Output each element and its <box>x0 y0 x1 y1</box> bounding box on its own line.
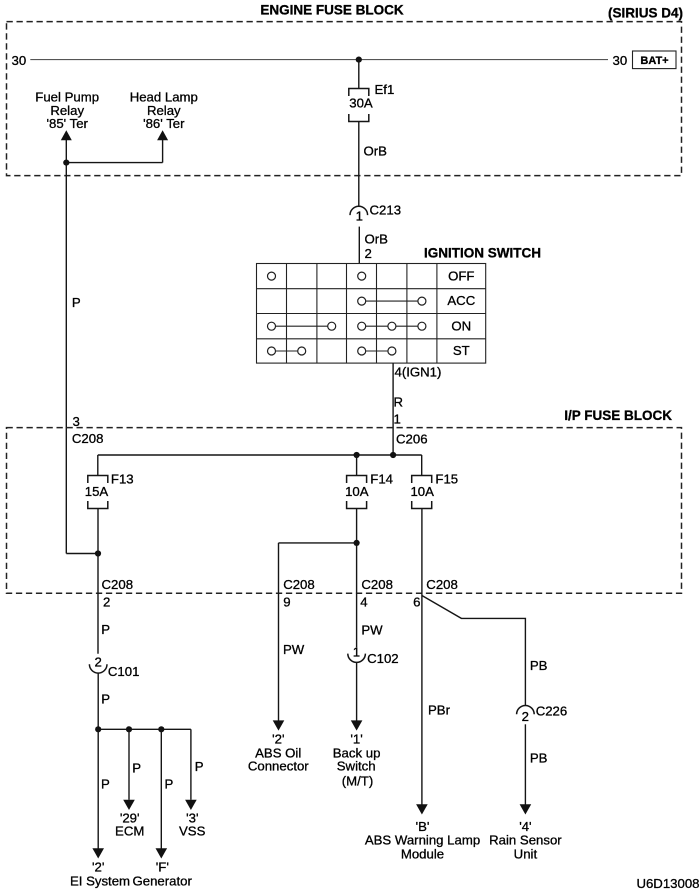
svg-text:U6D13008: U6D13008 <box>636 876 699 891</box>
svg-text:'F': 'F' <box>156 860 169 875</box>
pin label C208-2 <box>102 577 134 610</box>
svg-text:PW: PW <box>283 642 305 657</box>
I/P fuse block box <box>7 428 682 594</box>
svg-text:C213: C213 <box>370 203 402 218</box>
wire feeder to F14 <box>356 455 358 476</box>
wire bottom bus <box>98 728 191 730</box>
svg-text:P: P <box>72 295 81 310</box>
svg-text:ENGINE FUSE BLOCK: ENGINE FUSE BLOCK <box>260 2 404 17</box>
pin label C208-6 <box>413 577 458 610</box>
svg-text:3: 3 <box>73 414 80 429</box>
svg-text:IGNITION SWITCH: IGNITION SWITCH <box>424 246 541 261</box>
connector C226 <box>517 704 568 724</box>
wire feeder to F13 <box>97 455 99 476</box>
svg-text:C208: C208 <box>102 577 134 592</box>
svg-text:BAT+: BAT+ <box>640 55 668 67</box>
svg-text:P: P <box>165 776 174 791</box>
svg-text:2: 2 <box>365 246 372 261</box>
junction F13 branch <box>95 550 101 556</box>
svg-text:C226: C226 <box>536 704 568 719</box>
svg-text:(M/T): (M/T) <box>342 774 374 789</box>
svg-text:PB: PB <box>530 658 548 673</box>
svg-text:'1': '1' <box>350 732 362 747</box>
svg-text:P: P <box>101 622 110 637</box>
svg-text:C102: C102 <box>367 651 399 666</box>
svg-text:F15: F15 <box>435 472 458 487</box>
pin label C208-4 <box>360 577 393 610</box>
wire bus to fuse Ef1 <box>358 60 360 89</box>
wire ignition switch output 4(IGN1) <box>392 363 394 455</box>
svg-text:30: 30 <box>613 53 628 68</box>
svg-text:Generator: Generator <box>133 873 193 888</box>
wire drop4 VSS <box>190 729 192 800</box>
svg-text:P: P <box>101 776 110 791</box>
svg-text:OrB: OrB <box>365 231 389 246</box>
wire drop2 ECM <box>128 729 130 800</box>
arrow down generator <box>156 848 168 858</box>
svg-text:'86' Ter: '86' Ter <box>143 116 185 131</box>
svg-text:ECM: ECM <box>115 824 144 839</box>
svg-text:1: 1 <box>356 208 363 223</box>
svg-text:F13: F13 <box>111 472 134 487</box>
svg-text:9: 9 <box>283 595 290 610</box>
svg-text:PB: PB <box>530 750 548 765</box>
head lamp relay label <box>130 89 198 131</box>
svg-text:C208: C208 <box>361 577 393 592</box>
junction feeder C206 <box>390 452 396 458</box>
wire F15 down <box>421 509 423 805</box>
junction bus/Ef1 <box>356 57 362 63</box>
connector C213 <box>350 203 401 224</box>
svg-text:PBr: PBr <box>428 702 451 717</box>
svg-text:C206: C206 <box>396 431 428 446</box>
svg-text:C208: C208 <box>72 431 104 446</box>
ignition switch contacts row ON <box>268 322 426 330</box>
svg-text:OrB: OrB <box>364 144 388 159</box>
wire Ef1 to C213 <box>358 122 360 207</box>
svg-text:2: 2 <box>103 595 110 610</box>
svg-text:'2': '2' <box>92 860 104 875</box>
svg-text:VSS: VSS <box>179 824 206 839</box>
fuse Ef1 30A <box>349 82 394 122</box>
wire drop3 generator <box>160 729 162 848</box>
svg-text:Module: Module <box>401 846 444 861</box>
svg-text:2: 2 <box>95 654 102 669</box>
arrow down ABS warning lamp module <box>416 804 428 814</box>
arrow down EI system <box>92 848 104 858</box>
engine fuse block box <box>7 22 682 176</box>
svg-text:10A: 10A <box>410 484 434 499</box>
junction ABS oil tap <box>354 540 360 546</box>
svg-text:6: 6 <box>413 595 420 610</box>
ECM label <box>115 811 144 839</box>
svg-text:PW: PW <box>361 623 383 638</box>
junction relay branch <box>63 160 69 166</box>
svg-text:ST: ST <box>453 343 470 358</box>
fuse F14 10A <box>345 472 393 509</box>
svg-text:'85' Ter: '85' Ter <box>46 116 88 131</box>
arrow down ABS oil connector <box>273 720 285 730</box>
wire label OrB 2 <box>365 231 389 260</box>
svg-text:2: 2 <box>522 709 529 724</box>
wire relay branch horizontal <box>66 162 162 164</box>
fuse F13 15A <box>85 472 134 509</box>
arrow down ECM <box>123 800 135 810</box>
svg-text:ON: ON <box>451 318 471 333</box>
ignition switch contacts row OFF <box>268 272 366 280</box>
svg-text:R: R <box>394 394 404 409</box>
svg-text:I/P FUSE BLOCK: I/P FUSE BLOCK <box>564 408 672 423</box>
wire C102 down <box>356 662 358 720</box>
svg-text:F14: F14 <box>370 472 393 487</box>
svg-text:(SIRIUS D4): (SIRIUS D4) <box>608 6 683 21</box>
ignition switch table <box>257 264 486 364</box>
svg-text:Unit: Unit <box>514 846 538 861</box>
wire feeder to F15 <box>421 455 423 476</box>
svg-text:4(IGN1): 4(IGN1) <box>395 365 442 380</box>
svg-text:Ef1: Ef1 <box>375 82 395 97</box>
wire drop1 EI system <box>97 729 99 848</box>
svg-text:1: 1 <box>353 644 360 659</box>
svg-text:P: P <box>195 759 204 774</box>
wire long P feed left <box>65 163 67 554</box>
svg-text:1: 1 <box>394 412 401 427</box>
svg-text:Switch: Switch <box>337 758 376 773</box>
junction bus drop1 <box>95 726 101 732</box>
wire C213 to ignition switch <box>358 227 360 264</box>
ABS oil connector label <box>248 732 309 774</box>
junction bus drop2 <box>126 726 132 732</box>
wire ABS oil tap horizontal <box>279 542 357 544</box>
arrow up to fuel pump relay <box>61 130 72 162</box>
fuse F15 10A <box>410 472 458 509</box>
svg-text:EI System: EI System <box>70 873 130 888</box>
svg-text:C208: C208 <box>283 577 315 592</box>
svg-text:OFF: OFF <box>448 268 474 283</box>
wire C101 down <box>97 673 99 729</box>
svg-text:4: 4 <box>360 595 367 610</box>
arrow down VSS <box>185 800 197 810</box>
fuel pump relay label <box>35 89 99 131</box>
wire F14 down <box>356 509 358 648</box>
junction bus drop3 <box>158 726 164 732</box>
ignition switch contacts row ST <box>268 347 396 355</box>
pin label C208-9 <box>283 577 315 610</box>
svg-text:P: P <box>101 692 110 707</box>
svg-text:Connector: Connector <box>248 758 309 773</box>
wire feeder horizontal <box>98 454 422 456</box>
arrow up to head lamp relay <box>157 130 168 162</box>
back up switch label <box>333 732 381 789</box>
VSS label <box>179 811 206 839</box>
rain sensor unit label <box>489 819 562 861</box>
wire P feed elbow into F13 branch <box>66 553 98 555</box>
connector C101 <box>89 654 139 679</box>
svg-text:15A: 15A <box>85 484 109 499</box>
svg-text:C208: C208 <box>426 577 458 592</box>
svg-text:C101: C101 <box>108 664 140 679</box>
junction feeder F14 <box>354 452 360 458</box>
wire diagonal to rain sensor branch <box>422 596 526 706</box>
connector C102 <box>348 644 399 666</box>
arrow down back up switch <box>351 720 363 730</box>
ignition switch contacts row ACC <box>358 297 426 305</box>
svg-text:30A: 30A <box>349 96 373 111</box>
ABS warning lamp module label <box>365 819 480 861</box>
wire ABS oil down <box>278 543 280 721</box>
generator label <box>133 860 193 889</box>
svg-text:P: P <box>132 760 141 775</box>
BAT+ terminal <box>633 51 677 69</box>
wire bus 30 <box>30 59 608 61</box>
svg-text:'2': '2' <box>272 732 284 747</box>
svg-text:30: 30 <box>12 53 27 68</box>
wire F13 down <box>97 509 99 654</box>
arrow down rain sensor unit <box>520 804 532 814</box>
svg-text:10A: 10A <box>345 484 369 499</box>
wire C226 down <box>524 724 526 804</box>
EI system label <box>70 860 130 889</box>
svg-text:ACC: ACC <box>447 293 475 308</box>
